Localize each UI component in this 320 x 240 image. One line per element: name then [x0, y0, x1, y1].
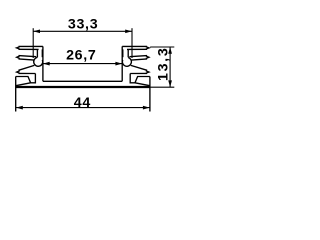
svg-text:44: 44 [74, 95, 91, 111]
svg-text:33,3: 33,3 [68, 17, 98, 33]
svg-text:13,3: 13,3 [155, 47, 171, 81]
svg-text:26,7: 26,7 [66, 47, 96, 63]
